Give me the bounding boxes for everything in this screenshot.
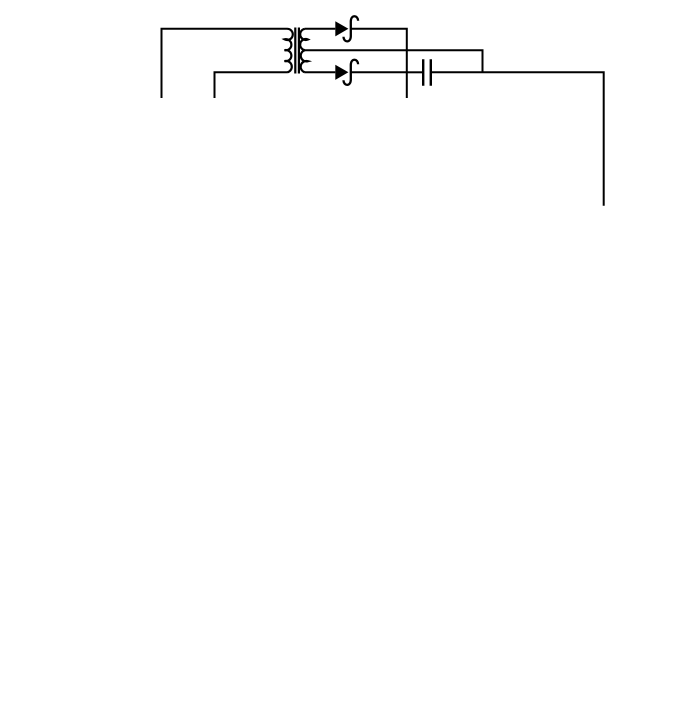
wire secondary top to diode D1 [305,28,335,30]
wire diode D1 to VIN node [351,29,407,98]
transformer T1 secondary lower winding [301,50,308,72]
wire diode D2 to VIN node [351,71,407,73]
wire secondary center tap to GND2 rail [305,50,483,72]
wire ST2 to transformer primary bottom [215,72,288,98]
transformer T1 primary winding [285,29,293,73]
transformer T1 secondary upper winding [300,29,308,50]
wire ST1 to transformer primary top [162,29,288,98]
wire secondary bottom to diode D2 [305,71,335,73]
capacitor C1 2.2uF plates [423,59,431,85]
transformer T1 core [295,28,299,74]
wire capacitor C1 to GND2 rail [432,71,483,73]
wire GND2 rail down right side to resistor divider [483,72,604,206]
diode D2 [335,65,348,80]
diode D1 [335,21,348,36]
wire VIN node to capacitor C1 [407,71,422,73]
